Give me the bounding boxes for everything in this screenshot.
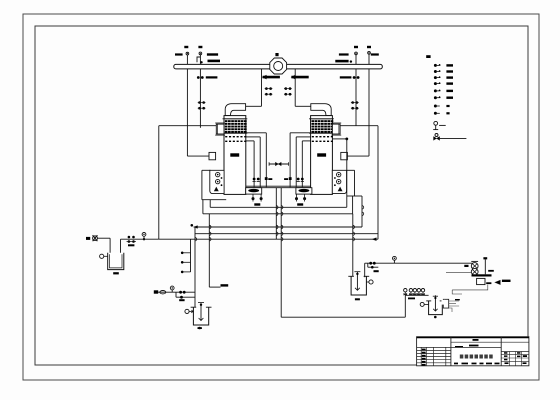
instrument PT-4 square tag xyxy=(367,46,371,48)
instrument PT-2 left stem xyxy=(199,52,202,64)
arrow on y239.2 xyxy=(372,238,376,241)
T2 gas inlet nozzle xyxy=(332,124,340,134)
pump P1b xyxy=(216,179,220,183)
scrubber tower T2 outlet elbow xyxy=(311,104,331,116)
pump P2b xyxy=(337,179,341,183)
wire tower1 inlet header xyxy=(159,125,217,127)
TK1 valve label bar xyxy=(128,244,134,246)
TK4 side box xyxy=(443,299,448,308)
sump tray S1 xyxy=(246,188,262,194)
dosing header marks xyxy=(408,298,415,300)
label bar right of PT-4 xyxy=(371,53,379,55)
tank TK1 xyxy=(108,253,124,270)
pump P1a xyxy=(216,172,220,176)
TK3 discharge valves xyxy=(369,262,372,265)
pump line valves xyxy=(179,291,182,294)
tank TK1 level instrument xyxy=(100,254,104,258)
arrow label bar xyxy=(502,280,511,282)
wire under pump box 2 xyxy=(347,195,362,197)
valve pair right lower xyxy=(285,93,288,96)
valve pair left lower xyxy=(265,93,268,96)
pump discharge thick pipe xyxy=(472,274,492,276)
wire pump box left drop xyxy=(201,170,203,199)
wire TK1 discharge xyxy=(120,239,122,253)
base box marks xyxy=(486,282,491,284)
T1 circulation pump box xyxy=(210,170,224,193)
instrument PT-1 left stem xyxy=(186,52,189,64)
scrubber tower T1 outlet elbow xyxy=(225,104,245,116)
gas flow arrow left xyxy=(263,76,280,79)
valve pair right drop lower xyxy=(351,107,354,110)
wire bypass loop left vertical xyxy=(158,126,160,240)
valve pair left drop lower xyxy=(198,107,201,110)
instrument PT-4 right stem xyxy=(368,51,371,64)
balance pipe between towers xyxy=(269,163,288,165)
valve pair left drop upper xyxy=(198,101,201,104)
TK2 agitator xyxy=(200,303,202,321)
wire TK3 discharge riser xyxy=(364,263,366,277)
legend control valve symbol xyxy=(434,134,467,141)
TK4 instrument xyxy=(420,302,424,306)
valve pair left upper xyxy=(265,87,268,90)
instrument PT-2 square tag xyxy=(198,46,202,48)
feed source 2 label xyxy=(154,290,158,293)
dosing pump stack xyxy=(471,261,478,275)
wire TK4 feed drop xyxy=(434,294,436,297)
wire dashed level lead xyxy=(442,308,452,312)
hook lead to PT-2 xyxy=(197,57,200,62)
wire pump line to tank TK2 xyxy=(158,291,195,293)
T1 spray level rows xyxy=(225,136,246,142)
TK4 agitator xyxy=(434,296,436,311)
wire thin lead into dosing pump xyxy=(446,271,471,273)
valve pair right upper xyxy=(285,87,288,90)
TK3 agitator xyxy=(356,272,358,291)
wire fan suction right xyxy=(294,69,296,107)
pump unit base box xyxy=(477,278,485,284)
right grid marks xyxy=(504,352,527,364)
wire run y233.7 xyxy=(195,233,378,235)
legend short rows xyxy=(434,105,450,115)
T2 riser valves xyxy=(284,177,304,181)
valve on drop B xyxy=(197,76,200,79)
legend level gauge symbol xyxy=(433,121,446,129)
side box leads xyxy=(449,301,459,306)
T1 name label bar xyxy=(230,153,239,156)
pump sub line label xyxy=(179,299,184,301)
T2 side small box xyxy=(341,152,348,159)
wire tower2 inlet header xyxy=(340,125,378,127)
wire T1 outlet to fan xyxy=(246,105,262,107)
balance valve xyxy=(275,162,281,166)
wire long bottom transfer line xyxy=(281,316,405,318)
tank TK3 xyxy=(351,276,366,295)
aux skid small box xyxy=(442,300,446,305)
wire vertical to mix tank xyxy=(194,227,196,320)
T2 circulation pump box xyxy=(332,170,346,193)
wire feed to tank xyxy=(97,237,110,239)
title block middle dividers xyxy=(451,337,529,366)
wire thin control line xyxy=(452,285,488,290)
pump sub line xyxy=(175,292,177,297)
junction dot T2 drop xyxy=(332,138,346,140)
valve on right drop B xyxy=(353,76,356,79)
wire fan suction left xyxy=(261,69,263,107)
wire run y207 xyxy=(210,206,347,208)
drawing title text xyxy=(460,355,493,359)
pump unit label bar xyxy=(464,265,468,267)
instrument on pump line xyxy=(170,286,174,292)
sampling tap row 2 xyxy=(181,261,184,264)
sampling tap row 1 xyxy=(181,252,184,255)
wire center downcomer B xyxy=(280,188,282,318)
mix tank TK2 xyxy=(193,307,208,325)
legend title square xyxy=(426,55,430,58)
scrubber tower T2 body xyxy=(311,116,333,195)
wire center downcomer A xyxy=(275,188,277,240)
TK1 discharge valves xyxy=(128,236,131,239)
label bar at drop B xyxy=(206,76,218,78)
drain triangle T1 xyxy=(215,188,218,191)
instrument on run y239.2 xyxy=(142,233,146,240)
TK3 label xyxy=(355,298,360,300)
label bar left of PT-1 xyxy=(175,53,183,55)
wire sampling drop xyxy=(190,239,192,272)
T1 spray risers xyxy=(246,133,266,187)
T1 demister dense packing band xyxy=(223,119,248,133)
title bottom row marks xyxy=(454,363,500,365)
wire run y239.2 long xyxy=(159,238,378,240)
instrument PT-3 right stem xyxy=(355,52,358,64)
sump S1 drain valves xyxy=(252,194,263,206)
pump symbol ellipse xyxy=(160,291,166,294)
fan F1 impeller xyxy=(274,62,283,71)
sampling tap row 3 xyxy=(181,271,184,274)
dosing header xyxy=(405,294,428,296)
feed isolation valve cross xyxy=(93,235,98,241)
wire downcomer to TK3 xyxy=(352,214,354,289)
label bar 2 right of PT-2 xyxy=(208,60,221,63)
TK3 sub line label xyxy=(374,270,379,272)
wire drop into TK2 right xyxy=(209,286,220,288)
flow arrow right xyxy=(495,280,501,285)
T2 spray risers xyxy=(290,133,311,187)
instrument PT-1 square tag xyxy=(184,46,188,48)
T2 name label bar xyxy=(317,153,326,156)
title block revision table xyxy=(417,337,451,366)
mix tank TK4 xyxy=(429,301,443,315)
wire pump box 2 right drop xyxy=(354,170,356,196)
sump tray S2 xyxy=(296,188,312,194)
T1 side small box xyxy=(209,152,216,159)
wire to T2 side box xyxy=(347,155,369,157)
T1 riser valves xyxy=(253,177,273,181)
tank TK1 label xyxy=(113,272,119,274)
valve pair right drop upper xyxy=(351,101,354,104)
wire run y213.8 xyxy=(203,213,353,215)
flue gas duct header xyxy=(174,64,382,69)
wire long vertical left xyxy=(208,214,210,287)
feed source label xyxy=(86,237,90,240)
T1 gas inlet nozzle xyxy=(216,124,224,134)
fan F1 casing xyxy=(270,58,287,74)
pipe crossing jumps xyxy=(195,206,364,241)
gas flow arrow right xyxy=(291,76,308,79)
label bar 2 left of PT-3 xyxy=(335,60,348,63)
TK3 sub line xyxy=(367,263,369,267)
T2 demister dense packing band xyxy=(309,119,334,133)
instrument on TK3 discharge xyxy=(393,256,397,263)
wire T2 outlet to fan xyxy=(295,105,311,107)
wire pump box top line xyxy=(202,169,211,171)
label bar right of PT-2 xyxy=(207,53,218,55)
label bar at right drop B xyxy=(340,76,352,78)
wire bypass loop right vertical xyxy=(377,126,379,240)
wire duct drop right A xyxy=(368,69,370,156)
drop label bar xyxy=(221,284,229,286)
TK3 instrument xyxy=(369,280,373,284)
TK2 instrument xyxy=(185,309,189,313)
legend rows with valve symbols xyxy=(434,64,453,99)
wire to T1 side box xyxy=(187,155,209,157)
pump vent riser xyxy=(484,260,486,275)
instrument PT-3 square tag xyxy=(354,46,358,48)
revision table row marks xyxy=(422,349,426,366)
T2 spray level rows xyxy=(312,136,333,142)
wire duct drop right B xyxy=(355,69,357,126)
collecting trough top chords xyxy=(246,185,311,187)
TK2 bottom label xyxy=(198,327,201,330)
dosing valve row xyxy=(404,289,425,296)
scrubber tower T1 body xyxy=(224,116,246,195)
title block right grid xyxy=(501,352,529,366)
wire pump box 2 top line xyxy=(347,169,355,171)
fan F1 tag square xyxy=(275,53,278,56)
drawing number text marks xyxy=(473,339,479,341)
pump P2a xyxy=(337,172,341,176)
drain triangle T2 xyxy=(338,188,341,191)
wire run y227 with arrow xyxy=(194,226,362,228)
wire duct drop left B xyxy=(199,69,201,128)
sump S2 drain valves xyxy=(295,194,306,206)
title block frame xyxy=(417,337,529,366)
wire under pump box xyxy=(202,199,226,201)
TK4 bottom dot xyxy=(434,316,437,319)
inner drawing border xyxy=(35,26,528,365)
label bar left of PT-3 xyxy=(339,53,349,55)
wire duct drop left A xyxy=(186,69,188,156)
